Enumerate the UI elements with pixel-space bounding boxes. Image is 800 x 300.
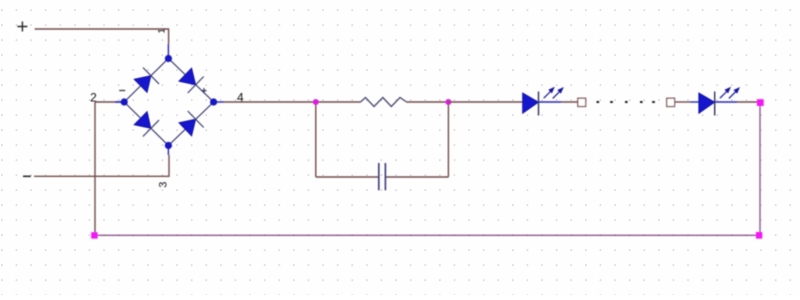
wire LED1 to pad1	[561, 101, 578, 103]
bridge minus mark	[119, 90, 125, 92]
LED D5 arrow 2	[553, 87, 564, 98]
LED D5 arrow 1	[544, 87, 555, 98]
LED D5	[523, 92, 539, 116]
terminal square top right	[757, 99, 764, 106]
bridge diode D3 (left node to bottom node)	[134, 112, 159, 137]
wire bottom rail (selected net)	[98, 234, 757, 236]
wire pad2 to LED2	[675, 101, 690, 103]
node bottom (3)	[165, 142, 172, 149]
node top (1)	[165, 55, 172, 62]
wire RC bottom left	[316, 176, 378, 178]
terminal + (positive input)	[17, 22, 27, 32]
continuation dot 5	[652, 101, 655, 103]
wire RC top left	[316, 101, 361, 103]
continuation dot 1	[597, 101, 600, 103]
wire RC right vertical	[447, 102, 449, 177]
wire from + terminal to node 1	[35, 29, 169, 44]
resistor R1	[361, 98, 407, 107]
pin stub node 1	[167, 44, 169, 59]
continuation dot 2	[610, 101, 613, 103]
terminal square bottom right	[756, 232, 762, 239]
LED D6 arrow 1	[720, 87, 731, 98]
junction RC left	[313, 99, 319, 105]
pin stub node 2	[115, 101, 124, 103]
LED D5 cathode pin	[539, 101, 562, 103]
pad square right	[667, 98, 675, 106]
bridge diode D4 (bottom node to right node)	[179, 111, 204, 136]
svg-text:3: 3	[157, 182, 169, 188]
pad square left	[578, 98, 586, 106]
terminal - (negative input)	[23, 175, 31, 177]
LED D6 cathode pin	[715, 101, 737, 103]
bridge plus mark	[201, 88, 206, 93]
bridge diode D2 (top node to right node)	[179, 68, 204, 93]
wire from - terminal to node 3	[34, 155, 169, 176]
LED D6 anode pin	[690, 101, 699, 103]
LED D6	[699, 92, 715, 116]
wire RC bottom right	[386, 176, 448, 178]
pin stub node 3	[167, 146, 169, 156]
terminal square bottom left	[91, 232, 97, 238]
bridge diode D1 (left node to top node)	[134, 68, 159, 93]
wire RC left vertical	[315, 102, 317, 177]
junction RC right	[445, 99, 451, 105]
wire node 2 to left vertical	[95, 101, 124, 103]
node left (2)	[121, 98, 128, 105]
wire to LED1	[448, 101, 522, 103]
wire LED2 to right corner	[737, 101, 757, 103]
capacitor C1	[379, 163, 386, 190]
bridge diamond edges	[124, 59, 213, 146]
wire node 4 to RC block	[224, 101, 316, 103]
node right (4)	[210, 98, 217, 105]
continuation dot 3	[625, 101, 628, 103]
wire RC top right	[407, 101, 449, 103]
wire right vertical (selected net)	[759, 106, 761, 232]
continuation dot 4	[640, 101, 643, 103]
LED D6 arrow 2	[729, 87, 740, 98]
svg-text:1: 1	[157, 28, 168, 33]
wire left vertical down to bottom rail	[94, 102, 96, 233]
pin stub node 4	[214, 101, 224, 103]
